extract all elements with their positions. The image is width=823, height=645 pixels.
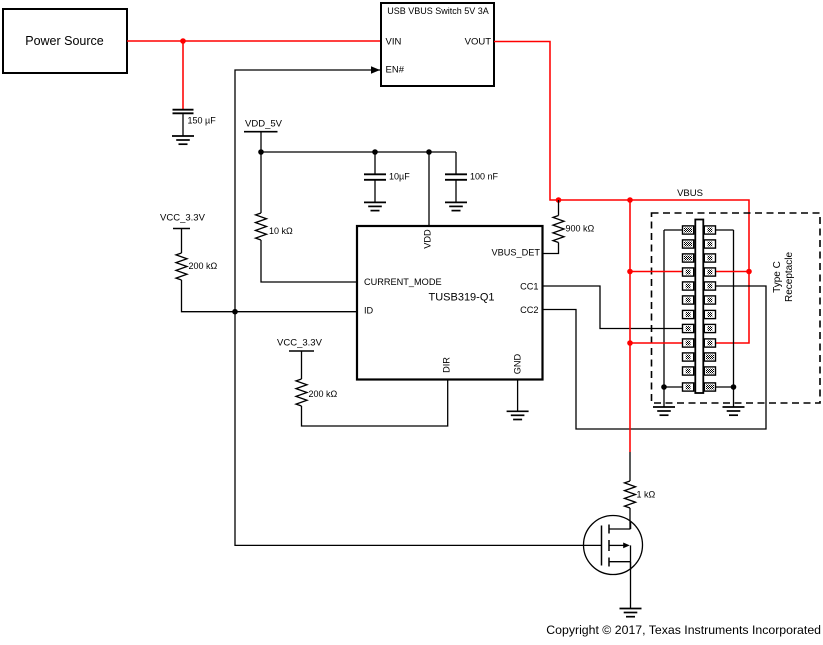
svg-text:200 kΩ: 200 kΩ bbox=[189, 261, 218, 271]
pin label DIR bbox=[442, 357, 452, 373]
Type C receptacle dashed outline bbox=[652, 213, 821, 403]
receptacle pin row 3 left bbox=[683, 254, 694, 262]
wire: 10uF to ground bbox=[374, 180, 376, 203]
wire: VBUS row9 left (red) bbox=[630, 342, 683, 344]
part name TUSB319-Q1 bbox=[428, 292, 494, 304]
label Type C Receptacle bbox=[772, 252, 795, 302]
wire: 1k to MOSFET drain bbox=[629, 508, 631, 529]
receptacle pin row 12 left bbox=[683, 383, 694, 391]
wire: 100nF to ground bbox=[455, 180, 457, 203]
pin label CC1 bbox=[520, 281, 538, 291]
svg-text:CC2: CC2 bbox=[520, 305, 538, 315]
svg-text:Power Source: Power Source bbox=[25, 34, 104, 48]
receptacle pin row 8 left bbox=[683, 324, 694, 332]
ground (below 150uF) bbox=[172, 136, 194, 144]
copyright note bbox=[546, 623, 821, 637]
capacitor 150uF bbox=[173, 110, 217, 126]
receptacle pin row 11 left bbox=[683, 367, 694, 375]
receptacle centre bar bbox=[695, 220, 703, 394]
receptacle right ground rail bbox=[716, 230, 734, 407]
wire: junction down to 150uF cap (red) bbox=[182, 41, 184, 110]
wire: VOUT to VBUS rail (red) bbox=[494, 42, 749, 344]
junction dot at receptacle VBUS right pin row4 bbox=[746, 269, 752, 275]
wire: VBUS row4 left (red) bbox=[630, 271, 683, 273]
receptacle pin row 8 right bbox=[704, 324, 715, 332]
svg-text:GND: GND bbox=[513, 353, 523, 374]
pin label VBUS_DET bbox=[491, 248, 540, 258]
junction dot VDD rail 10uF tap bbox=[372, 149, 378, 155]
receptacle pin row 1 left bbox=[683, 226, 694, 234]
svg-text:VCC_3.3V: VCC_3.3V bbox=[160, 213, 206, 224]
power symbol VCC_3.3V (lower) bbox=[277, 338, 323, 380]
pin label CC2 bbox=[520, 305, 538, 315]
wire: VDD pin bbox=[428, 152, 430, 225]
pin label ID bbox=[364, 306, 374, 316]
resistor 900 kOhm bbox=[553, 216, 595, 243]
svg-text:VOUT: VOUT bbox=[465, 37, 492, 48]
ground (below 100nF) bbox=[445, 202, 467, 210]
resistor 1 kOhm bbox=[625, 481, 656, 508]
junction dot VDD rail left bbox=[258, 149, 264, 155]
pin arrow into EN# bbox=[371, 66, 380, 73]
power symbol VCC_3.3V (left) bbox=[160, 213, 206, 254]
IC TUSB319-Q1 U1 bbox=[357, 226, 543, 380]
wire: 10k to CURRENT_MODE pin bbox=[261, 240, 356, 282]
receptacle pin row 12 right bbox=[704, 383, 715, 391]
wire: cap to ground bbox=[182, 114, 184, 136]
receptacle pin row 3 right bbox=[704, 254, 715, 262]
power source box bbox=[3, 9, 127, 73]
pin label GND bbox=[513, 353, 523, 374]
svg-text:VDD: VDD bbox=[423, 229, 433, 249]
svg-text:DIR: DIR bbox=[442, 357, 452, 373]
svg-text:VCC_3.3V: VCC_3.3V bbox=[277, 338, 323, 349]
receptacle pin row 7 left bbox=[683, 310, 694, 318]
svg-text:200 kΩ: 200 kΩ bbox=[309, 389, 338, 399]
receptacle pin row 2 left bbox=[683, 240, 694, 248]
wire: EN# to MOSFET gate bbox=[235, 70, 602, 545]
pin label CURRENT_MODE bbox=[364, 277, 442, 287]
svg-text:10µF: 10µF bbox=[389, 172, 410, 182]
ground (receptacle right) bbox=[723, 407, 745, 415]
svg-text:Receptacle: Receptacle bbox=[784, 252, 795, 302]
wire: GND pin down bbox=[517, 379, 519, 411]
wire: red to black transition down to 1k bbox=[629, 452, 631, 481]
svg-text:CURRENT_MODE: CURRENT_MODE bbox=[364, 277, 442, 287]
junction dot VDD rail VDD pin tap bbox=[426, 149, 432, 155]
junction dot row4 left (red) bbox=[627, 269, 633, 275]
junction dot at 900k tap bbox=[556, 197, 562, 203]
receptacle pin row 9 left bbox=[683, 339, 694, 347]
svg-text:CC1: CC1 bbox=[520, 281, 538, 291]
svg-text:VBUS_DET: VBUS_DET bbox=[491, 248, 540, 258]
ground (chip GND) bbox=[507, 411, 529, 419]
wire: drain up through circle bbox=[630, 522, 632, 529]
junction dot right rail bottom bbox=[731, 384, 737, 390]
wire: 200k to ID pin bbox=[182, 280, 357, 312]
svg-text:150 µF: 150 µF bbox=[188, 116, 217, 126]
wire: VDD_5V rail horizontal bbox=[261, 151, 456, 153]
svg-text:VIN: VIN bbox=[386, 37, 402, 48]
wire: Power Source to VIN (red) bbox=[127, 40, 380, 42]
svg-text:Type C: Type C bbox=[772, 261, 783, 293]
pin label VDD bbox=[423, 229, 433, 249]
ground (receptacle left) bbox=[653, 407, 675, 415]
wire: VBUS_DET pin to 900k bbox=[544, 243, 559, 254]
wire: CC pulldown line (red part) bbox=[629, 200, 631, 452]
capacitor 10uF bbox=[364, 172, 410, 182]
junction dot at CC pull line tap bbox=[627, 197, 633, 203]
receptacle pin row 4 right bbox=[704, 268, 715, 276]
svg-text:VBUS: VBUS bbox=[677, 188, 703, 199]
power symbol VDD_5V bbox=[244, 119, 283, 153]
wire: rail down to 10k resistor bbox=[260, 152, 262, 213]
USB VBUS switch block U2 bbox=[381, 3, 494, 86]
receptacle pin row 7 right bbox=[704, 310, 715, 318]
junction dot left rail bottom bbox=[661, 384, 667, 390]
junction dot row9 left (red) bbox=[627, 340, 633, 346]
svg-text:100 nF: 100 nF bbox=[470, 172, 499, 182]
receptacle pin row 6 right bbox=[704, 296, 715, 304]
junction dot on VIN wire bbox=[180, 38, 186, 44]
receptacle pin row 6 left bbox=[683, 296, 694, 304]
svg-text:Copyright © 2017, Texas Instru: Copyright © 2017, Texas Instruments Inco… bbox=[546, 623, 821, 637]
resistor 200 kOhm (left) bbox=[176, 253, 218, 280]
svg-text:1 kΩ: 1 kΩ bbox=[637, 490, 656, 500]
svg-text:USB VBUS Switch 5V 3A: USB VBUS Switch 5V 3A bbox=[387, 6, 489, 16]
wire: CC1 to receptacle row8 left bbox=[544, 286, 683, 329]
wire: CC2 to receptacle row5 right bbox=[544, 286, 767, 429]
wire: rail down to 100nF cap bbox=[455, 152, 457, 174]
receptacle pin row 10 left bbox=[683, 353, 694, 361]
svg-text:EN#: EN# bbox=[386, 65, 405, 76]
wire: rail down to 10uF cap bbox=[374, 152, 376, 174]
transistor Q1 N-MOSFET bbox=[584, 516, 643, 575]
capacitor 100nF bbox=[445, 172, 499, 182]
ground (MOSFET source) bbox=[620, 609, 642, 617]
receptacle pin row 5 right bbox=[704, 282, 715, 290]
receptacle pin row 1 right bbox=[704, 226, 715, 234]
resistor 10 kOhm bbox=[256, 213, 294, 240]
wire: VBUS row4 right (red) bbox=[716, 271, 750, 273]
resistor 200 kOhm (lower) bbox=[296, 379, 338, 406]
receptacle pin row 11 right bbox=[704, 367, 715, 375]
ground (below 10uF) bbox=[364, 202, 386, 210]
wire: source to ground bbox=[630, 562, 632, 609]
svg-text:10 kΩ: 10 kΩ bbox=[269, 226, 293, 236]
receptacle pin row 4 left bbox=[683, 268, 694, 276]
svg-text:TUSB319-Q1: TUSB319-Q1 bbox=[428, 292, 494, 304]
receptacle pin row 9 right bbox=[704, 339, 715, 347]
svg-text:900 kΩ: 900 kΩ bbox=[566, 224, 595, 234]
receptacle pin row 2 right bbox=[704, 240, 715, 248]
receptacle pin row 5 left bbox=[683, 282, 694, 290]
wire: 900k top to VBUS rail bbox=[558, 200, 560, 216]
wire: 200k to DIR pin bbox=[302, 379, 448, 426]
receptacle pin row 10 right bbox=[704, 353, 715, 361]
receptacle left ground rail bbox=[664, 230, 683, 407]
net label VBUS bbox=[677, 188, 703, 199]
junction dot EN line x ID line bbox=[232, 309, 238, 315]
svg-text:VDD_5V: VDD_5V bbox=[245, 119, 283, 130]
svg-text:ID: ID bbox=[364, 306, 374, 316]
